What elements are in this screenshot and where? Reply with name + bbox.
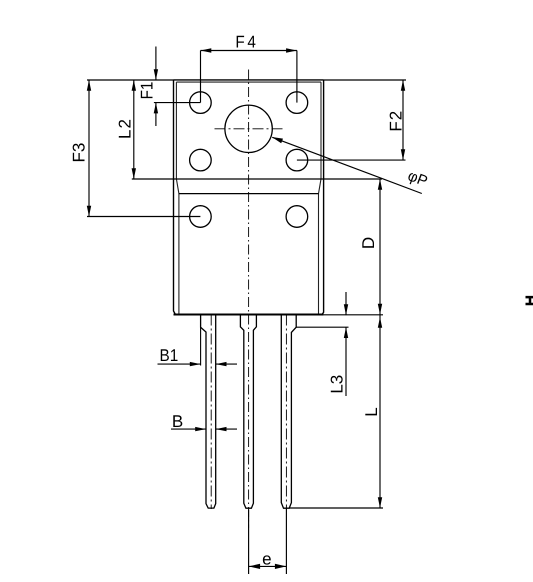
hole low-right [286, 206, 308, 228]
dim F1 lower shaft [155, 103, 157, 126]
F1 arrows [154, 69, 158, 80]
divider extension left (L2) [132, 178, 174, 180]
pin 3 right [281, 315, 296, 509]
dimension lines [89, 47, 422, 567]
pin bottom extension (L) [289, 507, 383, 509]
lower body top line [179, 193, 319, 195]
svg-text:F1: F1 [138, 82, 157, 100]
body bottom extension right (D/L) [324, 314, 383, 316]
B arrows [195, 427, 206, 431]
top edge extension right [324, 79, 406, 81]
top edge extension left [87, 79, 174, 81]
B1 arrows [190, 362, 201, 366]
low-left hole center extension (F3) [87, 216, 200, 218]
svg-text:L2: L2 [116, 118, 135, 139]
pin 1 left [201, 315, 216, 509]
svg-text:L: L [362, 407, 381, 416]
D arrows [378, 179, 382, 190]
dim F4 line [201, 50, 297, 52]
svg-text:F2: F2 [387, 110, 406, 132]
dim B1 right shaft [216, 363, 237, 365]
L3 top extension [296, 326, 348, 328]
left pin centerline [210, 315, 212, 510]
svg-text:F3: F3 [69, 143, 88, 163]
hole mid-left [190, 149, 212, 171]
tab/body divider line [174, 178, 324, 180]
dim B right shaft [216, 428, 237, 430]
F2 arrows [401, 80, 405, 91]
F4 hole extension left [200, 51, 202, 103]
e extension right [285, 508, 287, 574]
hole top-right [286, 92, 308, 114]
svg-text:e: e [262, 550, 271, 569]
vertical main centerline [248, 70, 250, 529]
hole low-left [190, 206, 212, 228]
leader arrow [272, 137, 283, 143]
e arrows [249, 564, 261, 569]
dim L3 lower shaft [345, 327, 347, 396]
dim B1 left shaft [158, 363, 201, 365]
F3 arrows [87, 80, 91, 91]
L3 arrows [344, 304, 348, 315]
svg-text:B1: B1 [160, 346, 179, 365]
mid-right hole center extension (F2) [297, 159, 406, 161]
leader line phi d [272, 137, 422, 193]
hole top-left [190, 92, 212, 114]
svg-text:F4: F4 [235, 32, 258, 51]
L2 arrows [132, 80, 136, 91]
dim F1 upper shaft [155, 47, 157, 81]
pin 2 middle [240, 315, 256, 509]
dim F3 line [88, 80, 90, 217]
dim F2 line [402, 80, 404, 160]
F4 arrows [201, 48, 212, 52]
package body inner face outline [176, 82, 321, 314]
package body outer outline [174, 80, 324, 315]
dim D line [379, 179, 381, 315]
F4 hole extension right [296, 51, 298, 103]
dim B left shaft [171, 428, 206, 430]
mounting hole big [225, 105, 272, 152]
B1 extension line (pin1 wide edge projected) [200, 327, 202, 365]
L arrows [378, 317, 382, 328]
divider extension right (D) [324, 178, 382, 180]
dim L3 upper shaft [345, 292, 347, 315]
horizontal centerline of big hole [215, 128, 283, 130]
svg-text:L3: L3 [328, 375, 347, 394]
svg-text:D: D [359, 237, 378, 249]
e extension middle [248, 510, 250, 575]
corner mark at right edge [526, 297, 533, 304]
arrowheads [87, 48, 405, 569]
top hole center extension (F1) [154, 102, 201, 104]
hole mid-right [286, 149, 308, 171]
dim e line [249, 565, 287, 567]
extension lines [87, 51, 406, 575]
dim L line [379, 315, 381, 509]
svg-text:B: B [172, 412, 183, 431]
right pin centerline [285, 315, 287, 509]
dim L2 line [133, 80, 135, 179]
